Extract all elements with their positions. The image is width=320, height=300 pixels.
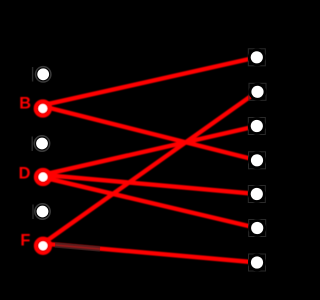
- node R2 (right 2): [249, 83, 266, 100]
- node B (left 2, red): [19, 95, 50, 116]
- wire edge F-R7: [43, 244, 257, 263]
- node R1 (right 1): [248, 49, 265, 66]
- wire edge D-R6: [43, 177, 257, 228]
- node R5 (right 5): [248, 186, 265, 203]
- node R7 (right 7): [249, 254, 266, 271]
- node R4 (right 4): [249, 152, 266, 169]
- svg-text:B: B: [19, 95, 31, 113]
- wire edge F-R2: [43, 92, 257, 244]
- wire edge B-R4: [43, 106, 257, 160]
- node E (left 5): [33, 204, 50, 219]
- node A (left 1): [33, 67, 51, 82]
- wire edge D-R3: [43, 126, 257, 175]
- node R3 (right 3): [248, 118, 265, 135]
- dark overlay on F-R7: [55, 245, 100, 249]
- wire edge B-R1: [43, 57, 257, 105]
- node C (left 3): [32, 136, 49, 151]
- svg-text:F: F: [20, 232, 30, 250]
- node F (left 6, red): [20, 232, 50, 253]
- node R6 (right 6): [249, 220, 266, 237]
- node D (left 4, red): [19, 165, 50, 184]
- wire edge D-R5: [43, 175, 257, 194]
- svg-text:D: D: [19, 165, 31, 183]
